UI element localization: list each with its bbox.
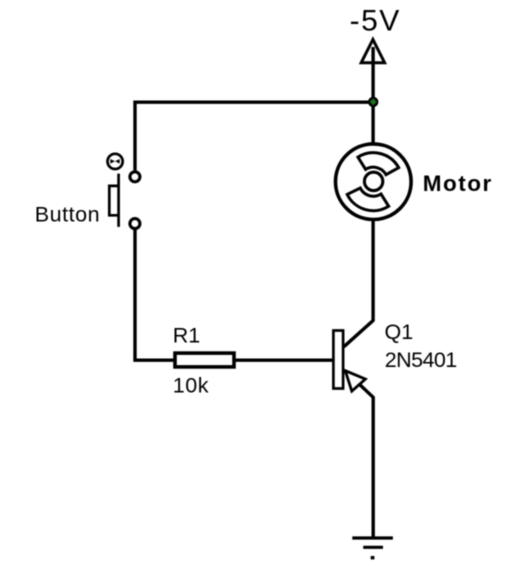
svg-text:Motor: Motor (423, 171, 493, 196)
svg-text:-5V: -5V (350, 5, 401, 38)
svg-text:2N5401: 2N5401 (385, 348, 457, 372)
svg-text:10k: 10k (173, 374, 209, 398)
svg-text:R1: R1 (173, 323, 200, 347)
svg-text:Q1: Q1 (385, 320, 414, 344)
svg-text:Button: Button (35, 203, 100, 227)
